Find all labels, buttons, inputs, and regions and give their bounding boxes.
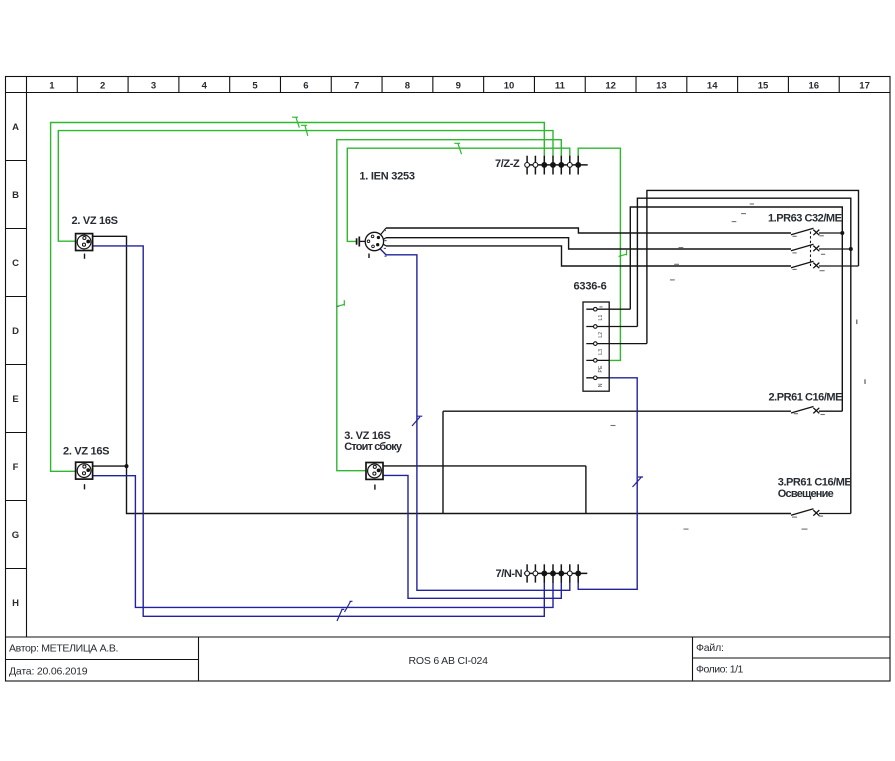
title block <box>6 637 891 681</box>
svg-text:D: D <box>12 326 19 337</box>
junction dot pole 1 <box>840 231 844 235</box>
cable flag green bus 2 <box>301 125 308 136</box>
socket X2 lower (2. VZ 16S) <box>76 462 93 489</box>
svg-text:N: N <box>598 383 604 387</box>
svg-text:L1: L1 <box>598 315 604 321</box>
svg-text:9: 9 <box>456 81 461 92</box>
terminal strip 7/Z-Z <box>525 156 588 175</box>
svg-text:1. IEN 3253: 1. IEN 3253 <box>359 171 414 183</box>
cable flag blue IEN riser <box>412 416 422 426</box>
stray tick 2 <box>864 379 866 384</box>
svg-text:2. VZ 16S: 2. VZ 16S <box>72 215 118 227</box>
svg-text:10: 10 <box>504 81 515 92</box>
svg-text:2. VZ 16S: 2. VZ 16S <box>63 445 109 457</box>
row letters <box>12 122 19 609</box>
svg-text:Стоит сбоку: Стоит сбоку <box>344 441 403 453</box>
wire number dashes <box>336 204 825 529</box>
svg-text:7/N-N: 7/N-N <box>496 568 523 580</box>
svg-text:H: H <box>12 598 19 609</box>
cable flag green PE link <box>619 250 627 256</box>
wire phase 1 IEN to breaker 1 pole 1 (black) <box>386 228 791 233</box>
svg-text:7: 7 <box>354 81 359 92</box>
wire L socket F (black) <box>93 465 127 467</box>
wire loop pole1 to 6336-6 L1 (black) <box>630 207 842 411</box>
terminal block 6336-6 <box>583 302 647 391</box>
cable flag green socket 3 riser <box>337 300 344 306</box>
wire N socket 3 (blue) <box>383 475 561 598</box>
wire phase 2 IEN to breaker 1 pole 2 (black) <box>386 238 791 249</box>
svg-text:Файл:: Файл: <box>696 642 724 654</box>
cable flag blue 6336 N riser <box>633 477 644 487</box>
svg-text:E: E <box>12 394 18 405</box>
svg-text:12: 12 <box>605 81 616 92</box>
connector X1 pin marks <box>384 231 387 257</box>
wire phase 3 IEN to breaker 1 pole 3 (black) <box>386 246 791 266</box>
svg-text:Автор: МЕТЕЛИЦА А.В.: Автор: МЕТЕЛИЦА А.В. <box>9 643 118 655</box>
junction dot pole 2 <box>849 247 853 251</box>
svg-text:ROS 6 AB CI-024: ROS 6 AB CI-024 <box>409 655 489 667</box>
svg-text:1: 1 <box>49 81 55 92</box>
svg-text:PE: PE <box>598 365 604 373</box>
svg-text:G: G <box>12 530 19 541</box>
svg-text:3: 3 <box>151 81 156 92</box>
cable flag blue bottom bus F <box>345 601 353 612</box>
header column ticks <box>77 77 839 93</box>
svg-text:6: 6 <box>303 81 308 92</box>
header numbers <box>49 81 870 92</box>
breaker 2 blade and contact <box>791 407 842 414</box>
svg-text:Дата: 20.06.2019: Дата: 20.06.2019 <box>9 666 88 678</box>
stray tick 1 <box>856 320 858 325</box>
svg-text:2.PR61 C16/ME: 2.PR61 C16/ME <box>769 391 843 403</box>
cable flag blue bottom bus C <box>337 609 344 621</box>
svg-text:11: 11 <box>555 81 566 92</box>
wire loop pole3 to 6336-6 L3 (black) <box>647 190 859 343</box>
wire PE connector IEN (green) <box>347 148 570 241</box>
wire L socket 3 (black) <box>383 466 586 514</box>
socket X2 upper (2. VZ 16S) <box>76 234 93 259</box>
svg-text:6336-6: 6336-6 <box>574 281 607 293</box>
breaker 1 pole 1 blade and contact <box>791 228 842 235</box>
svg-text:3.PR61 C16/ME: 3.PR61 C16/ME <box>778 477 852 489</box>
svg-text:2: 2 <box>100 81 105 92</box>
row dividers <box>6 161 27 569</box>
svg-text:3. VZ 16S: 3. VZ 16S <box>344 430 390 442</box>
wire loop pole2 to 6336-6 L2 (black) <box>637 198 850 513</box>
wire PE socket 3 (green) <box>337 140 562 471</box>
breaker 1 trip link (dashed) <box>810 232 812 267</box>
svg-text:16: 16 <box>809 81 820 92</box>
svg-text:7/Z-Z: 7/Z-Z <box>495 158 520 170</box>
svg-text:Фолио: 1/1: Фолио: 1/1 <box>696 664 744 676</box>
cable flag green bus 4 <box>454 143 461 154</box>
wire PE socket F (green) <box>51 123 545 472</box>
drawing frame <box>6 77 891 682</box>
svg-text:1.PR63 C32/ME: 1.PR63 C32/ME <box>768 213 842 225</box>
svg-text:A: A <box>12 122 19 133</box>
svg-text:13: 13 <box>656 81 667 92</box>
connector X1 (IEN 3253) <box>357 228 386 258</box>
wire PE link 7/Z-Z to 6336-6 (green) <box>578 148 620 360</box>
svg-text:4: 4 <box>202 81 208 92</box>
wire branch breaker 2 (black) <box>443 411 791 513</box>
svg-text:14: 14 <box>707 81 718 92</box>
wire N socket C (blue) <box>93 246 544 616</box>
cable flag green bus 1 <box>292 117 299 127</box>
svg-text:L2: L2 <box>598 332 604 338</box>
wire L socket C + main L bus to breaker 3 (black) <box>93 236 791 513</box>
wire N 6336-6 to 7/N-N (blue) <box>578 378 637 590</box>
svg-text:Освещение: Освещение <box>778 488 834 500</box>
wire PE socket C (green) <box>58 131 553 242</box>
socket X3 (3. VZ 16S) <box>366 463 383 490</box>
wire N socket F (blue) <box>93 476 553 608</box>
breaker 3 blade and contact <box>791 509 851 516</box>
wire N connector IEN (blue) <box>380 249 570 591</box>
svg-text:5: 5 <box>252 81 258 92</box>
breaker 1 pole 2 blade and contact <box>791 244 851 251</box>
svg-text:8: 8 <box>405 81 410 92</box>
svg-text:F: F <box>13 462 19 473</box>
svg-text:C: C <box>12 258 19 269</box>
svg-text:17: 17 <box>859 81 870 92</box>
svg-text:15: 15 <box>758 81 769 92</box>
terminal strip 7/N-N <box>524 564 587 582</box>
svg-text:L3: L3 <box>598 349 604 355</box>
breaker 1 pole 3 blade and contact <box>791 261 859 268</box>
svg-text:B: B <box>12 190 19 201</box>
junction dot sockets L <box>125 464 129 468</box>
